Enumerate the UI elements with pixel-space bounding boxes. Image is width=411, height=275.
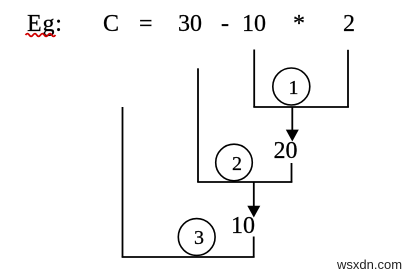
token 2 <box>343 12 355 36</box>
arrow 2 shaft <box>253 182 255 207</box>
result label 10 <box>231 214 255 238</box>
bracket2 right vertical wire (under 20 label) <box>291 163 293 182</box>
bracket2 left vertical wire (under 30) <box>197 68 199 182</box>
result label 20 <box>274 139 298 163</box>
token = <box>139 12 153 36</box>
red squiggly underline under Eg <box>26 34 56 37</box>
step circle 1 <box>273 68 310 105</box>
arrow 1 shaft <box>291 107 293 130</box>
bracket1 left vertical wire (under 10) <box>253 50 255 108</box>
bracket1 horizontal wire <box>253 106 349 108</box>
bracket3 left vertical wire (under C) <box>122 107 124 257</box>
token * <box>293 12 305 36</box>
bracket2 horizontal wire <box>197 181 292 183</box>
arrow 1 head <box>286 130 299 142</box>
token C <box>103 12 119 36</box>
token - <box>221 12 229 36</box>
step circle 2 <box>216 144 253 181</box>
bracket1 right vertical wire (under 2) <box>347 50 349 107</box>
step circle 3 <box>178 219 215 256</box>
svg-text:2: 2 <box>232 153 242 175</box>
arrow 2 head <box>247 206 260 218</box>
token 30 <box>178 12 202 36</box>
token 10 <box>242 12 266 36</box>
token Eg: <box>27 12 63 36</box>
svg-text:3: 3 <box>194 227 204 249</box>
svg-text:1: 1 <box>289 77 299 99</box>
bracket3 right vertical wire (under 10 label) <box>253 237 255 258</box>
bracket3 horizontal wire <box>122 256 255 258</box>
watermark wsxdn.com <box>337 258 402 271</box>
